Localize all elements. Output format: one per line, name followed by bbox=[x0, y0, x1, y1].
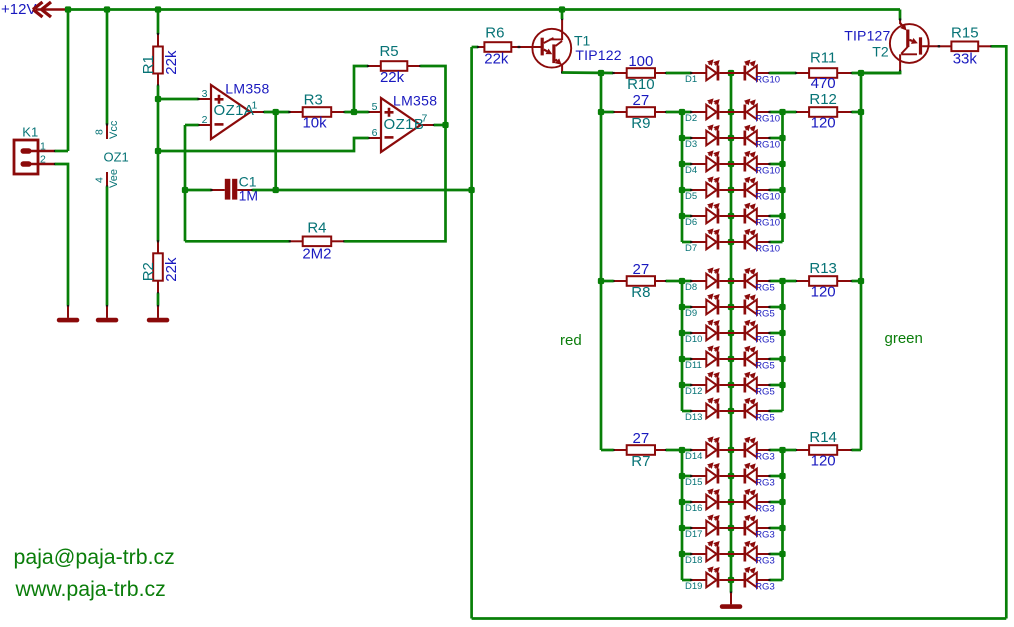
svg-text:D8: D8 bbox=[685, 282, 697, 293]
junction OZ1B output node bbox=[442, 122, 448, 128]
svg-text:D13: D13 bbox=[685, 412, 702, 423]
ground G1 bbox=[57, 305, 80, 322]
junction cathode column bbox=[728, 239, 734, 245]
junction cathode column bbox=[728, 356, 734, 362]
svg-text:OZ1: OZ1 bbox=[104, 150, 129, 165]
capacitor C1 1M bbox=[210, 173, 258, 203]
svg-text:D6: D6 bbox=[685, 217, 697, 228]
svg-text:RG5: RG5 bbox=[755, 335, 775, 346]
wire red bus to LED bbox=[682, 449, 691, 452]
junction red bus bbox=[679, 473, 685, 479]
LED RG10 green (row 7) bbox=[731, 229, 771, 250]
resistor R12 120 bbox=[795, 91, 853, 132]
junction green bus bbox=[779, 356, 785, 362]
svg-text:6: 6 bbox=[372, 127, 378, 139]
svg-text:RG3: RG3 bbox=[755, 530, 775, 541]
wire R12 to green feed bus bbox=[852, 111, 861, 114]
wire red bus to LED bbox=[682, 111, 691, 114]
svg-text:RG3: RG3 bbox=[755, 582, 775, 593]
svg-text:R5: R5 bbox=[379, 43, 398, 60]
junction +12V at OZ1 Vcc branch bbox=[104, 6, 110, 12]
wire red bus to LED bbox=[682, 163, 691, 166]
ground below LED column bbox=[720, 592, 743, 609]
wire R1 to R2 bbox=[157, 86, 160, 242]
LED RG5 green (row 9) bbox=[731, 294, 771, 315]
wire red bus to LED bbox=[682, 280, 691, 283]
svg-text:D2: D2 bbox=[685, 113, 697, 124]
junction green bus bbox=[779, 304, 785, 310]
junction green bus bbox=[779, 187, 785, 193]
svg-text:R1: R1 bbox=[140, 55, 157, 74]
svg-text:3: 3 bbox=[202, 88, 208, 100]
junction red bus bbox=[679, 382, 685, 388]
wire R9 to red bus 1 bbox=[666, 111, 682, 114]
wire node B to OZ1B pin 6 bbox=[158, 138, 369, 151]
transistor T2 TIP127 bbox=[844, 18, 940, 72]
LED RG10 green (row 1) bbox=[731, 60, 771, 81]
LED D16 red bbox=[690, 488, 731, 509]
wire R8 to red bus 2 bbox=[666, 280, 682, 283]
wire green bus 2 to R13 bbox=[783, 280, 797, 283]
LED RG3 green (row 18) bbox=[731, 541, 771, 562]
svg-text:D14: D14 bbox=[685, 451, 702, 462]
svg-text:RG10: RG10 bbox=[755, 140, 780, 151]
LED D3 red bbox=[690, 124, 731, 145]
svg-text:R8: R8 bbox=[631, 284, 650, 301]
wire LED to green bus bbox=[769, 410, 782, 413]
op-amp U1A (OZ1A LM358) bbox=[197, 80, 269, 139]
LED D17 red bbox=[690, 514, 731, 535]
junction green bus bbox=[779, 473, 785, 479]
svg-text:22k: 22k bbox=[163, 257, 180, 282]
junction cathode column bbox=[728, 382, 734, 388]
LED D19 red bbox=[690, 566, 731, 587]
LED D5 red bbox=[690, 176, 731, 197]
wire R4 to OZ1B output node bbox=[344, 125, 445, 241]
svg-text:22k: 22k bbox=[380, 69, 405, 86]
junction +12V at T1 emitter bbox=[559, 6, 565, 12]
junction cathode column bbox=[728, 304, 734, 310]
svg-text:8: 8 bbox=[94, 129, 106, 135]
svg-text:RG10: RG10 bbox=[755, 75, 780, 86]
junction red bus bbox=[679, 447, 685, 453]
wire OZ1A pin 2 stub bbox=[185, 124, 199, 127]
svg-text:D11: D11 bbox=[685, 360, 702, 371]
wire +12V top rail bbox=[67, 8, 900, 11]
junction red bus bbox=[679, 135, 685, 141]
svg-text:5: 5 bbox=[372, 101, 378, 113]
wire base loop bottom bbox=[472, 617, 1007, 620]
wire +12V to OZ1 pin 8 (Vcc) bbox=[106, 10, 109, 125]
resistor R6 22k bbox=[477, 25, 520, 68]
wire red anode bus block 3 bbox=[681, 450, 684, 580]
ground G2 bbox=[96, 305, 119, 322]
wire R13 to green feed bus bbox=[852, 280, 861, 283]
junction cathode column bbox=[728, 551, 734, 557]
svg-text:D15: D15 bbox=[685, 477, 702, 488]
junction C1 right node bbox=[273, 187, 279, 193]
wire red feed bus bbox=[600, 73, 603, 450]
wire R3 to OZ1B pin 5 bbox=[345, 111, 369, 114]
junction green bus bbox=[779, 161, 785, 167]
wire RG10 row1 to R11 bbox=[769, 72, 796, 75]
op-amp U1B (OZ1B LM358) bbox=[367, 92, 437, 152]
junction green feed at R12 bbox=[858, 109, 864, 115]
junction cathode column bbox=[728, 577, 734, 583]
wire red bus to LED bbox=[682, 358, 691, 361]
wire red bus to LED bbox=[682, 189, 691, 192]
svg-text:RG10: RG10 bbox=[755, 166, 780, 177]
junction feed bus top bbox=[598, 70, 604, 76]
svg-text:OZ1B: OZ1B bbox=[384, 116, 425, 133]
LED RG5 green (row 13) bbox=[731, 398, 771, 419]
svg-text:RG10: RG10 bbox=[755, 218, 780, 229]
svg-text:R2: R2 bbox=[140, 262, 157, 281]
wire pin5 node up to R5 bbox=[354, 66, 368, 112]
LED RG5 green (row 11) bbox=[731, 346, 771, 367]
junction cathode column bbox=[728, 330, 734, 336]
svg-text:Vee: Vee bbox=[108, 169, 120, 188]
junction red bus bbox=[679, 525, 685, 531]
svg-text:RG5: RG5 bbox=[755, 361, 775, 372]
svg-text:R15: R15 bbox=[951, 25, 979, 42]
junction OZ1A output node bbox=[273, 109, 279, 115]
svg-text:T2: T2 bbox=[872, 44, 889, 60]
wire T1 collector to R10 bbox=[562, 71, 613, 74]
wire oscillator output to loop bbox=[276, 189, 472, 192]
junction red bus bbox=[679, 213, 685, 219]
wire red bus to LED bbox=[682, 579, 691, 582]
+12V supply arrow symbol bbox=[33, 2, 67, 17]
wire LED to green bus bbox=[769, 137, 782, 140]
LED D6 red bbox=[690, 202, 731, 223]
svg-text:D19: D19 bbox=[685, 581, 702, 592]
op-amp power pin 4 Vee of OZ1 bbox=[94, 169, 121, 188]
junction green bus bbox=[779, 330, 785, 336]
LED D18 red bbox=[690, 540, 731, 561]
svg-text:RG10: RG10 bbox=[755, 192, 780, 203]
junction cathode column bbox=[728, 213, 734, 219]
wire green anode bus block 3 bbox=[781, 450, 784, 580]
LED RG10 green (row 3) bbox=[731, 125, 771, 146]
LED RG5 green (row 8) bbox=[731, 268, 771, 289]
svg-text:R4: R4 bbox=[307, 219, 326, 236]
junction feed bus at R9 bbox=[598, 109, 604, 115]
wire LED to green bus bbox=[769, 384, 782, 387]
wire R10 to D1 bbox=[666, 72, 691, 75]
wire R15 around right side bbox=[991, 46, 1006, 618]
junction green bus bbox=[779, 109, 785, 115]
junction red bus bbox=[679, 499, 685, 505]
wire LED to green bus bbox=[769, 189, 782, 192]
svg-text:Vcc: Vcc bbox=[108, 120, 120, 139]
junction +12V at K1 branch bbox=[65, 6, 71, 12]
wire red bus to LED bbox=[682, 410, 691, 413]
wire node A to OZ1A pin 3 bbox=[158, 98, 199, 101]
svg-text:red: red bbox=[560, 332, 582, 349]
LED RG3 green (row 19) bbox=[731, 567, 771, 588]
svg-text:TIP122: TIP122 bbox=[575, 47, 621, 63]
wire red anode bus block 2 bbox=[681, 281, 684, 411]
svg-text:green: green bbox=[885, 330, 923, 347]
svg-text:RG10: RG10 bbox=[755, 114, 780, 125]
junction green bus bbox=[779, 213, 785, 219]
wire +12V to T1 emitter bbox=[561, 10, 564, 20]
svg-text:D4: D4 bbox=[685, 165, 697, 176]
svg-text:R6: R6 bbox=[485, 25, 504, 42]
junction green bus bbox=[779, 551, 785, 557]
svg-text:1: 1 bbox=[40, 141, 46, 153]
svg-text:D10: D10 bbox=[685, 334, 702, 345]
svg-text:R3: R3 bbox=[304, 92, 323, 109]
junction green feed top bbox=[858, 70, 864, 76]
svg-text:10k: 10k bbox=[302, 115, 327, 132]
wire red bus to LED bbox=[682, 306, 691, 309]
resistor R4 2M2 bbox=[289, 219, 346, 262]
junction green bus bbox=[779, 135, 785, 141]
junction OZ1B pin 5 node bbox=[351, 109, 357, 115]
svg-text:RG5: RG5 bbox=[755, 309, 775, 320]
wire +12V to R1 bbox=[157, 10, 160, 35]
junction output to base loop bbox=[468, 187, 474, 193]
junction cathode column bbox=[728, 109, 734, 115]
wire green bus 1 to R12 bbox=[783, 111, 797, 114]
svg-text:RG3: RG3 bbox=[755, 452, 775, 463]
svg-text:RG10: RG10 bbox=[755, 244, 780, 255]
svg-text:D1: D1 bbox=[685, 74, 697, 85]
wire LED to green bus bbox=[769, 475, 782, 478]
svg-text:D5: D5 bbox=[685, 191, 697, 202]
junction red bus bbox=[679, 161, 685, 167]
junction green bus bbox=[779, 278, 785, 284]
wire feed bus to R8 bbox=[601, 280, 614, 283]
wire R14 to green feed bus bbox=[852, 449, 861, 452]
junction +12V at R1 branch bbox=[155, 6, 161, 12]
wire LED to green bus bbox=[769, 449, 782, 452]
junction green bus bbox=[779, 382, 785, 388]
LED D7 red bbox=[690, 228, 731, 249]
junction green bus bbox=[779, 525, 785, 531]
wire OZ1A output down to C1 bbox=[274, 112, 277, 190]
ground G3 bbox=[147, 305, 170, 322]
wire LED to green bus bbox=[769, 163, 782, 166]
wire LED to green bus bbox=[769, 280, 782, 283]
wire loop top to R6 bbox=[472, 46, 478, 49]
junction red bus bbox=[679, 278, 685, 284]
svg-text:D9: D9 bbox=[685, 308, 697, 319]
wire K1 pin 1 to +12V bbox=[55, 150, 68, 153]
wire pin2 node to C1 bbox=[185, 189, 212, 192]
wire red bus to LED bbox=[682, 332, 691, 335]
svg-text:D12: D12 bbox=[685, 386, 702, 397]
junction green bus bbox=[779, 447, 785, 453]
resistor R2 22k bbox=[140, 240, 180, 294]
op-amp power pin 8 Vcc of OZ1 bbox=[94, 120, 121, 139]
svg-text:RG5: RG5 bbox=[755, 413, 775, 424]
svg-text:LM358: LM358 bbox=[393, 92, 437, 108]
svg-text:27: 27 bbox=[633, 261, 650, 278]
resistor R3 10k bbox=[288, 92, 345, 132]
svg-text:120: 120 bbox=[811, 453, 836, 470]
svg-text:R7: R7 bbox=[631, 453, 650, 470]
wire base loop left side bbox=[470, 47, 473, 619]
wire green feed bus bbox=[860, 73, 863, 450]
junction cathode column bbox=[728, 278, 734, 284]
svg-text:D16: D16 bbox=[685, 503, 702, 514]
wire LED to green bus bbox=[769, 358, 782, 361]
junction node A (R1-R2 divider, pin 3) bbox=[155, 96, 161, 102]
junction pin2/C1 node bbox=[182, 187, 188, 193]
connector K1 bbox=[14, 125, 56, 175]
junction cathode column bbox=[728, 135, 734, 141]
LED RG3 green (row 14) bbox=[731, 437, 771, 458]
svg-text:100: 100 bbox=[628, 53, 653, 70]
wire green anode bus block 1 bbox=[781, 112, 784, 242]
junction cathode column bbox=[728, 525, 734, 531]
resistor R10 100 bbox=[612, 53, 667, 93]
wire LED to green bus bbox=[769, 579, 782, 582]
wire R7 to red bus 3 bbox=[666, 449, 682, 452]
junction cathode column bbox=[728, 447, 734, 453]
LED RG3 green (row 17) bbox=[731, 515, 771, 536]
resistor R14 120 bbox=[795, 429, 853, 470]
LED D2 red bbox=[690, 98, 731, 119]
wire R2 to ground bbox=[157, 293, 160, 305]
junction node B (divider to pin 6 net) bbox=[155, 148, 161, 154]
svg-text:TIP127: TIP127 bbox=[844, 27, 890, 43]
resistor R1 22k bbox=[140, 33, 180, 87]
svg-text:D7: D7 bbox=[685, 243, 697, 254]
junction red bus bbox=[679, 109, 685, 115]
LED D15 red bbox=[690, 462, 731, 483]
svg-text:33k: 33k bbox=[953, 50, 978, 67]
wire +12V down to K1 pin 1 bbox=[67, 10, 70, 152]
wire C1 to OZ1A output node bbox=[252, 189, 275, 192]
resistor R11 470 bbox=[795, 50, 853, 92]
wire center cathode column bbox=[730, 73, 733, 593]
wire feed bus to R9 bbox=[601, 111, 614, 114]
wire LED to green bus bbox=[769, 241, 782, 244]
svg-text:OZ1A: OZ1A bbox=[214, 102, 255, 119]
LED D8 red bbox=[690, 267, 731, 288]
svg-text:R10: R10 bbox=[627, 76, 655, 93]
svg-text:470: 470 bbox=[811, 75, 836, 92]
resistor R15 33k bbox=[938, 25, 993, 68]
wire feed bus to R7 bbox=[601, 449, 614, 452]
svg-text:RG5: RG5 bbox=[755, 387, 775, 398]
svg-text:+12V: +12V bbox=[1, 1, 36, 18]
LED D13 red bbox=[690, 397, 731, 418]
LED RG5 green (row 12) bbox=[731, 372, 771, 393]
LED RG5 green (row 10) bbox=[731, 320, 771, 341]
LED D14 red bbox=[690, 436, 731, 457]
junction cathode column bbox=[728, 70, 734, 76]
junction cathode column bbox=[728, 499, 734, 505]
wire green anode bus block 2 bbox=[781, 281, 784, 411]
svg-text:K1: K1 bbox=[22, 125, 38, 140]
junction cathode column bbox=[728, 187, 734, 193]
svg-text:R14: R14 bbox=[809, 429, 837, 446]
resistor R7 27 bbox=[612, 430, 667, 470]
wire T2 collector to green bus bbox=[861, 71, 900, 73]
wire red bus to LED bbox=[682, 553, 691, 556]
LED D9 red bbox=[690, 293, 731, 314]
wire R5 to OZ1B output bbox=[420, 66, 445, 125]
wire +12V to T2 emitter bbox=[899, 10, 902, 21]
wire LED to green bus bbox=[769, 527, 782, 530]
wire OZ1B pin 7 to node bbox=[434, 124, 446, 127]
svg-text:R12: R12 bbox=[809, 91, 837, 108]
svg-text:paja@paja-trb.cz: paja@paja-trb.cz bbox=[14, 545, 175, 569]
svg-text:R9: R9 bbox=[631, 115, 650, 132]
LED D11 red bbox=[690, 345, 731, 366]
resistor R9 27 bbox=[612, 92, 667, 132]
LED RG10 green (row 2) bbox=[731, 99, 771, 120]
svg-text:D18: D18 bbox=[685, 555, 702, 566]
wire OZ1A out to R3 bbox=[264, 111, 290, 114]
svg-text:2: 2 bbox=[40, 154, 46, 166]
wire red bus to LED bbox=[682, 384, 691, 387]
resistor R5 22k bbox=[367, 43, 422, 86]
svg-text:2: 2 bbox=[202, 114, 208, 126]
svg-text:LM358: LM358 bbox=[225, 80, 269, 96]
wire red anode bus block 1 bbox=[681, 112, 684, 242]
junction red bus bbox=[679, 356, 685, 362]
wire red bus to LED bbox=[682, 137, 691, 140]
svg-text:27: 27 bbox=[633, 430, 650, 447]
LED RG3 green (row 16) bbox=[731, 489, 771, 510]
LED RG10 green (row 4) bbox=[731, 151, 771, 172]
wire red bus to LED bbox=[682, 215, 691, 218]
svg-text:R11: R11 bbox=[810, 50, 836, 67]
LED D12 red bbox=[690, 371, 731, 392]
svg-text:120: 120 bbox=[811, 115, 836, 132]
wire LED to green bus bbox=[769, 332, 782, 335]
wire green bus 3 to R14 bbox=[783, 449, 797, 452]
junction cathode column bbox=[728, 473, 734, 479]
svg-text:RG5: RG5 bbox=[755, 283, 775, 294]
LED RG10 green (row 5) bbox=[731, 177, 771, 198]
svg-text:120: 120 bbox=[811, 284, 836, 301]
svg-text:RG3: RG3 bbox=[755, 556, 775, 567]
svg-text:2M2: 2M2 bbox=[302, 245, 331, 262]
junction cathode column bbox=[728, 161, 734, 167]
wire LED to green bus bbox=[769, 501, 782, 504]
junction red bus bbox=[679, 551, 685, 557]
wire K1 pin 2 to ground bbox=[55, 164, 68, 306]
wire pin 2 feedback vertical bbox=[184, 125, 187, 241]
LED RG10 green (row 6) bbox=[731, 203, 771, 224]
junction red bus bbox=[679, 187, 685, 193]
svg-text:22k: 22k bbox=[484, 51, 509, 68]
LED D10 red bbox=[690, 319, 731, 340]
resistor R8 27 bbox=[612, 261, 667, 301]
wire LED to green bus bbox=[769, 553, 782, 556]
wire LED to green bus bbox=[769, 306, 782, 309]
svg-text:D17: D17 bbox=[685, 529, 702, 540]
transistor T1 TIP122 bbox=[518, 18, 622, 74]
wire red bus to LED bbox=[682, 241, 691, 244]
junction green bus bbox=[779, 499, 785, 505]
resistor R13 120 bbox=[795, 260, 853, 301]
wire red bus to LED bbox=[682, 501, 691, 504]
wire LED to green bus bbox=[769, 111, 782, 114]
svg-text:22k: 22k bbox=[163, 50, 180, 75]
junction cathode column bbox=[728, 408, 734, 414]
junction red bus bbox=[679, 330, 685, 336]
svg-text:D3: D3 bbox=[685, 139, 697, 150]
svg-text:4: 4 bbox=[94, 177, 106, 183]
